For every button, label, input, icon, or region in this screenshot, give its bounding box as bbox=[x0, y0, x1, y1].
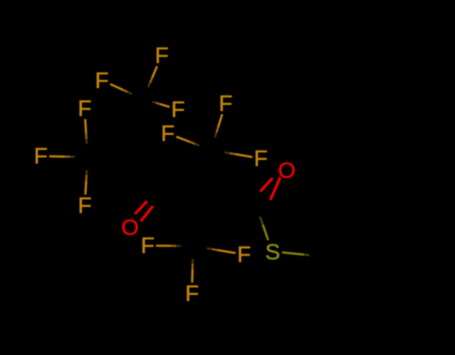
svg-text:F: F bbox=[78, 193, 92, 218]
double bond C3=O1 line 2 (offset, red) bbox=[135, 201, 147, 214]
svg-text:F: F bbox=[34, 144, 48, 169]
svg-text:F: F bbox=[161, 121, 175, 146]
svg-text:S: S bbox=[265, 240, 280, 265]
svg-text:F: F bbox=[155, 43, 169, 68]
svg-text:F: F bbox=[95, 68, 109, 93]
svg-text:F: F bbox=[171, 97, 185, 122]
bond CC-F11 fluorine half bbox=[218, 250, 236, 253]
bond CC-F10 fluorine half bbox=[156, 245, 171, 247]
svg-text:F: F bbox=[141, 233, 155, 258]
bond CA-F2 fluorine half bbox=[110, 84, 123, 90]
svg-text:F: F bbox=[219, 91, 233, 116]
svg-text:F: F bbox=[185, 281, 199, 306]
bond CA-F3 fluorine half bbox=[160, 104, 170, 107]
bond S-CH3 sulfur half bbox=[282, 252, 304, 254]
bond S-C1t sulfur half bbox=[263, 224, 269, 240]
svg-text:F: F bbox=[78, 96, 92, 121]
double bond C1t=O2 line 1 (main, red) bbox=[270, 177, 280, 200]
svg-text:O: O bbox=[278, 158, 296, 183]
double bond C1t=O2 line 2 (offset, red) bbox=[260, 178, 272, 192]
double bond C3=O1 line 1 (main, red) bbox=[141, 206, 153, 221]
svg-text:F: F bbox=[254, 146, 268, 171]
bond C5-F7 fluorine half bbox=[49, 155, 65, 158]
bond CB-F5 fluorine half bbox=[176, 137, 190, 142]
bond CC-F12 fluorine half bbox=[191, 269, 194, 283]
bond CB-F6 fluorine half bbox=[235, 154, 253, 157]
bond CB-F4 fluorine half bbox=[218, 114, 222, 127]
bond C5-F9 fluorine half bbox=[84, 180, 87, 194]
bond CA-F1 fluorine half bbox=[152, 66, 157, 78]
bond C5-F8 fluorine half bbox=[84, 119, 87, 134]
svg-text:F: F bbox=[237, 242, 251, 267]
svg-text:O: O bbox=[121, 215, 139, 240]
